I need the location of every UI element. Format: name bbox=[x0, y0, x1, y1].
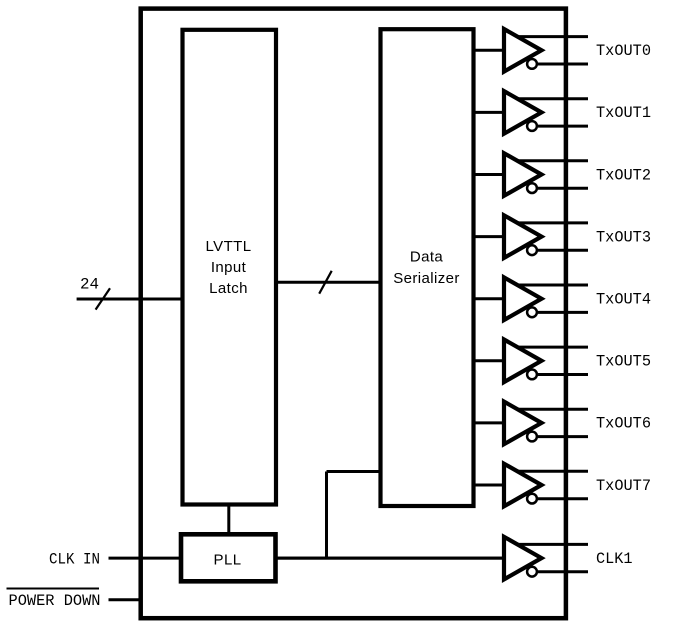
svg-text:TxOUT0: TxOUT0 bbox=[596, 42, 651, 60]
svg-text:TxOUT6: TxOUT6 bbox=[596, 415, 651, 433]
output driver TxOUT6 bbox=[474, 402, 589, 445]
svg-text:CLK IN: CLK IN bbox=[49, 551, 100, 569]
output driver TxOUT0 bbox=[474, 29, 589, 72]
output driver TxOUT2 bbox=[474, 153, 589, 196]
wire: POWER DOWN bbox=[109, 598, 141, 601]
svg-text:Input: Input bbox=[211, 259, 247, 276]
output driver TxOUT1 bbox=[474, 91, 589, 134]
svg-text:TxOUT4: TxOUT4 bbox=[596, 291, 651, 309]
svg-text:POWER DOWN: POWER DOWN bbox=[9, 592, 101, 610]
output driver CLK1 bbox=[276, 537, 589, 580]
output driver TxOUT4 bbox=[474, 277, 589, 320]
svg-text:TxOUT7: TxOUT7 bbox=[596, 477, 651, 495]
label POWER DOWN (active low) bbox=[7, 589, 101, 611]
wire: CLK IN bbox=[109, 557, 182, 560]
svg-text:TxOUT2: TxOUT2 bbox=[596, 166, 651, 184]
svg-text:LVTTL: LVTTL bbox=[206, 238, 252, 255]
svg-text:PLL: PLL bbox=[214, 552, 242, 569]
wire: latch to PLL bbox=[227, 505, 230, 535]
svg-text:TxOUT3: TxOUT3 bbox=[596, 228, 651, 246]
block LVTTL Input Latch bbox=[183, 30, 277, 505]
wire: PLL clock branch vertical bbox=[325, 472, 328, 559]
svg-text:Latch: Latch bbox=[209, 280, 248, 297]
svg-text:Data: Data bbox=[410, 249, 444, 266]
svg-text:Serializer: Serializer bbox=[393, 270, 460, 287]
wire: PLL output to CLK1 driver bbox=[276, 557, 505, 560]
bus width slash (input) bbox=[96, 288, 110, 309]
output driver TxOUT5 bbox=[474, 340, 589, 383]
svg-text:24: 24 bbox=[80, 276, 99, 294]
chip outline bbox=[141, 9, 566, 619]
output driver TxOUT3 bbox=[474, 215, 589, 258]
block Data Serializer bbox=[381, 29, 474, 506]
wire: 24-bit input bus bbox=[77, 298, 183, 301]
svg-text:TxOUT5: TxOUT5 bbox=[596, 353, 651, 371]
wire: latch to serializer bus bbox=[276, 281, 381, 284]
block PLL bbox=[181, 534, 276, 581]
wire: PLL clock branch to serializer bbox=[327, 470, 381, 473]
output driver TxOUT7 bbox=[474, 464, 589, 507]
svg-text:TxOUT1: TxOUT1 bbox=[596, 104, 651, 122]
svg-text:CLK1: CLK1 bbox=[596, 550, 633, 568]
bus width slash (internal) bbox=[319, 271, 332, 294]
